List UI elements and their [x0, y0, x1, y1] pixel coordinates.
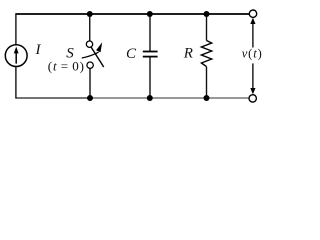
resistor R zigzag — [201, 41, 211, 67]
switch S motion arc — [82, 52, 99, 58]
v(t) bottom reference arrowhead — [250, 88, 255, 94]
svg-text:I: I — [35, 42, 42, 58]
wire bottom bus — [16, 97, 90, 99]
capacitor C top plate — [143, 51, 158, 53]
v(t) top reference arrowhead — [250, 18, 255, 24]
node switch bottom bus junction — [87, 95, 93, 101]
terminal top right — [249, 10, 256, 17]
svg-text:v(t): v(t) — [242, 47, 263, 61]
node capacitor bottom bus junction — [147, 95, 153, 101]
current source I — [5, 45, 27, 67]
v(t) bottom reference shaft — [252, 63, 254, 89]
node resistor top bus junction — [204, 11, 210, 17]
wire resistor branch lower — [206, 67, 208, 98]
switch S blade — [91, 47, 104, 67]
svg-text:(t = 0): (t = 0) — [48, 58, 85, 73]
v(t) top reference shaft — [252, 23, 254, 48]
terminal bottom right — [249, 95, 256, 102]
wire switch branch lower — [89, 69, 91, 98]
svg-text:C: C — [126, 46, 137, 62]
wire resistor branch upper — [206, 14, 208, 41]
wire bottom bus right — [90, 97, 249, 99]
switch S top contact — [86, 41, 92, 47]
wire capacitor branch upper — [149, 14, 151, 51]
wire left upper — [15, 13, 17, 45]
switch S bottom contact — [87, 62, 93, 68]
node resistor bottom bus junction — [204, 95, 210, 101]
svg-text:R: R — [183, 46, 193, 62]
wire capacitor branch lower — [149, 57, 151, 98]
switch S motion arrowhead — [96, 42, 102, 52]
node switch top bus junction — [87, 11, 93, 17]
wire switch branch upper — [89, 14, 91, 41]
capacitor C bottom plate — [143, 56, 158, 58]
wire left lower — [15, 66, 17, 98]
node capacitor top bus junction — [147, 11, 153, 17]
wire top bus — [16, 13, 249, 15]
